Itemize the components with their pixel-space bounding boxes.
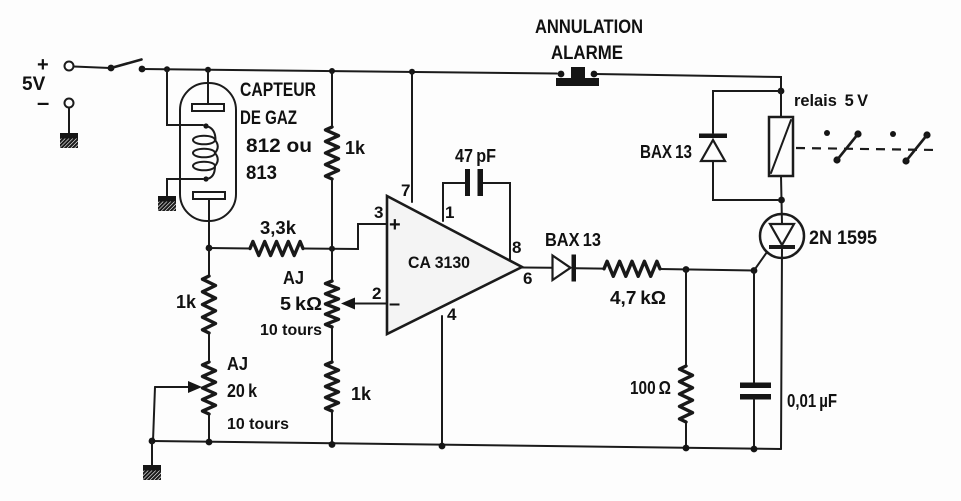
label CAPTEUR DE GAZ 812 ou 813 xyxy=(240,80,316,184)
svg-text:ALARME: ALARME xyxy=(551,43,623,64)
svg-text:8: 8 xyxy=(512,238,521,257)
svg-text:+: + xyxy=(389,214,401,236)
svg-text:2: 2 xyxy=(372,284,381,303)
sensor heater coil xyxy=(193,126,218,179)
trimmer AJ 20k 10 tours xyxy=(203,362,216,414)
svg-text:BAX 13: BAX 13 xyxy=(545,230,601,250)
svg-text:1k: 1k xyxy=(176,292,197,312)
wire sensor cathode down xyxy=(208,199,210,248)
svg-text:CA 3130: CA 3130 xyxy=(408,253,470,272)
junction sensor anode xyxy=(205,67,211,73)
ground (heater) xyxy=(146,196,188,213)
svg-text:1k: 1k xyxy=(345,138,366,158)
svg-text:relais 5 V: relais 5 V xyxy=(794,91,869,110)
junction 100 ohm branch xyxy=(683,266,690,273)
wire 100 ohm to bottom rail xyxy=(685,422,687,448)
relay contact 2 xyxy=(890,131,931,165)
wire diode to relay bottom xyxy=(713,161,778,200)
label AJ 5kOhm 10 tours xyxy=(260,268,322,339)
svg-text:20 k: 20 k xyxy=(227,381,258,401)
resistor 1k (left) xyxy=(203,276,216,333)
push button annulation alarme xyxy=(556,67,599,86)
wire 5k pot to 1k xyxy=(331,327,333,362)
trimmer AJ 5k 10 tours xyxy=(326,281,339,327)
node heater top xyxy=(203,123,208,128)
relay contact 1 xyxy=(824,130,862,164)
label ANNULATION ALARME xyxy=(535,17,643,64)
thyristor 2N 1595 xyxy=(760,214,804,258)
svg-text:813: 813 xyxy=(246,163,277,184)
label 5V supply xyxy=(22,54,49,115)
junction relay top xyxy=(778,88,785,95)
svg-text:47 pF: 47 pF xyxy=(455,146,496,166)
sensor bottom electrode plate xyxy=(193,192,225,199)
wiper arrow 20k pot xyxy=(153,381,202,441)
svg-text:100 Ω: 100 Ω xyxy=(630,378,671,398)
svg-text:3: 3 xyxy=(374,203,383,222)
wire 1k to 5k pot xyxy=(331,179,333,281)
svg-text:4: 4 xyxy=(447,305,457,324)
svg-text:0,01 µF: 0,01 µF xyxy=(787,391,837,411)
svg-text:3,3k: 3,3k xyxy=(260,218,297,238)
svg-text:7: 7 xyxy=(401,181,410,200)
pin 7 wire xyxy=(411,71,413,202)
junction bottom left (ground) xyxy=(149,438,156,445)
svg-text:1: 1 xyxy=(445,203,454,222)
pin 4 wire xyxy=(441,316,443,446)
wire 1k to bottom rail xyxy=(331,411,333,445)
wire 4,7k to gate node xyxy=(660,269,754,271)
svg-text:AJ: AJ xyxy=(227,354,248,374)
battery - terminal xyxy=(65,99,74,108)
wire heater bottom to ground xyxy=(167,179,203,197)
relay coil xyxy=(769,117,793,176)
resistor 100 Ohm xyxy=(680,366,693,422)
bottom ground rail wire xyxy=(152,441,781,449)
resistor 1k (lower middle) xyxy=(326,362,339,411)
wire push button to relay xyxy=(595,74,781,91)
svg-text:CAPTEUR: CAPTEUR xyxy=(240,80,316,101)
battery + terminal xyxy=(65,62,74,71)
thyristor gate wire xyxy=(754,252,767,271)
junction 20k column bottom xyxy=(206,439,213,446)
pin 1 wire xyxy=(443,183,465,221)
wire 3,3k left xyxy=(209,247,250,250)
wire junction to 1k left xyxy=(208,248,210,276)
junction 100 ohm bottom xyxy=(683,445,690,452)
top +5V rail wire (switch to push button) xyxy=(142,69,557,74)
wire gate node down to capacitor xyxy=(753,271,755,384)
wire - terminal to ground xyxy=(68,108,70,134)
diode BAX13 (freewheel) xyxy=(699,134,727,162)
gas sensor tube envelope xyxy=(180,83,236,221)
capacitor 0,01uF xyxy=(740,383,771,400)
svg-text:DE GAZ: DE GAZ xyxy=(240,108,297,129)
wire 1k to 20k pot xyxy=(208,333,210,362)
svg-text:5 kΩ: 5 kΩ xyxy=(280,294,322,314)
wire bottom-left to ground xyxy=(151,441,153,466)
svg-text:ANNULATION: ANNULATION xyxy=(535,17,643,38)
svg-text:812 ou: 812 ou xyxy=(246,136,312,157)
svg-text:BAX 13: BAX 13 xyxy=(640,142,692,162)
svg-text:+: + xyxy=(37,54,49,76)
junction heater feed xyxy=(164,66,170,72)
sensor top electrode plate xyxy=(192,104,224,111)
wire op-amp output xyxy=(522,267,552,269)
wire relay to thyristor xyxy=(781,176,782,224)
node heater bottom xyxy=(203,176,208,181)
thyristor cathode wire xyxy=(781,247,782,449)
ground (battery) xyxy=(48,133,90,150)
wiper arrow from op-amp pin 2 xyxy=(341,298,387,310)
wire heater top feed xyxy=(167,69,203,125)
junction 3,3k / 5k pot node xyxy=(329,246,335,252)
svg-text:–: – xyxy=(37,90,49,115)
diode BAX13 (output) xyxy=(553,255,577,282)
wire capacitor to bottom rail xyxy=(753,399,755,449)
resistor 4,7k xyxy=(604,261,660,276)
capacitor 47pF xyxy=(465,169,483,196)
resistor 3,3k xyxy=(250,242,303,256)
junction op-amp pin 7 xyxy=(409,69,415,75)
op-amp CA 3130 xyxy=(387,196,522,334)
svg-text:10 tours: 10 tours xyxy=(227,416,289,433)
switch S1 xyxy=(108,60,146,73)
svg-text:–: – xyxy=(389,293,400,315)
resistor 1k (upper middle) xyxy=(326,127,339,179)
wire rail to relay coil xyxy=(780,91,782,117)
svg-text:AJ: AJ xyxy=(283,268,304,288)
junction 1k column bottom xyxy=(329,441,336,448)
svg-text:2N 1595: 2N 1595 xyxy=(809,228,877,249)
junction pin 4 bottom xyxy=(439,443,446,450)
wire + terminal to switch xyxy=(74,67,111,69)
wire diode to 4,7k xyxy=(576,267,604,269)
svg-text:6: 6 xyxy=(523,269,532,288)
junction capacitor bottom xyxy=(751,446,758,453)
wire junction to 100 ohm xyxy=(685,270,687,367)
wire relay top branch to diode xyxy=(713,91,781,133)
pin 8 wire xyxy=(483,183,510,260)
svg-text:1k: 1k xyxy=(351,384,372,404)
wire 20k to bottom rail xyxy=(208,414,210,442)
wire 3,3k to op-amp pin 3 xyxy=(303,224,387,249)
wire rail to 1k xyxy=(331,71,333,127)
junction 1k column xyxy=(329,68,335,74)
wire sensor anode to rail xyxy=(207,70,209,104)
svg-text:10 tours: 10 tours xyxy=(260,322,322,339)
junction thyristor anode / BAX13 return xyxy=(778,197,785,204)
relay actuation dashed line xyxy=(796,148,936,150)
junction gate node xyxy=(751,267,758,274)
ground (bottom rail) xyxy=(131,465,173,482)
svg-text:4,7 kΩ: 4,7 kΩ xyxy=(610,288,666,308)
label AJ 20k 10 tours xyxy=(227,354,289,433)
node sensor divider junction xyxy=(206,245,213,252)
